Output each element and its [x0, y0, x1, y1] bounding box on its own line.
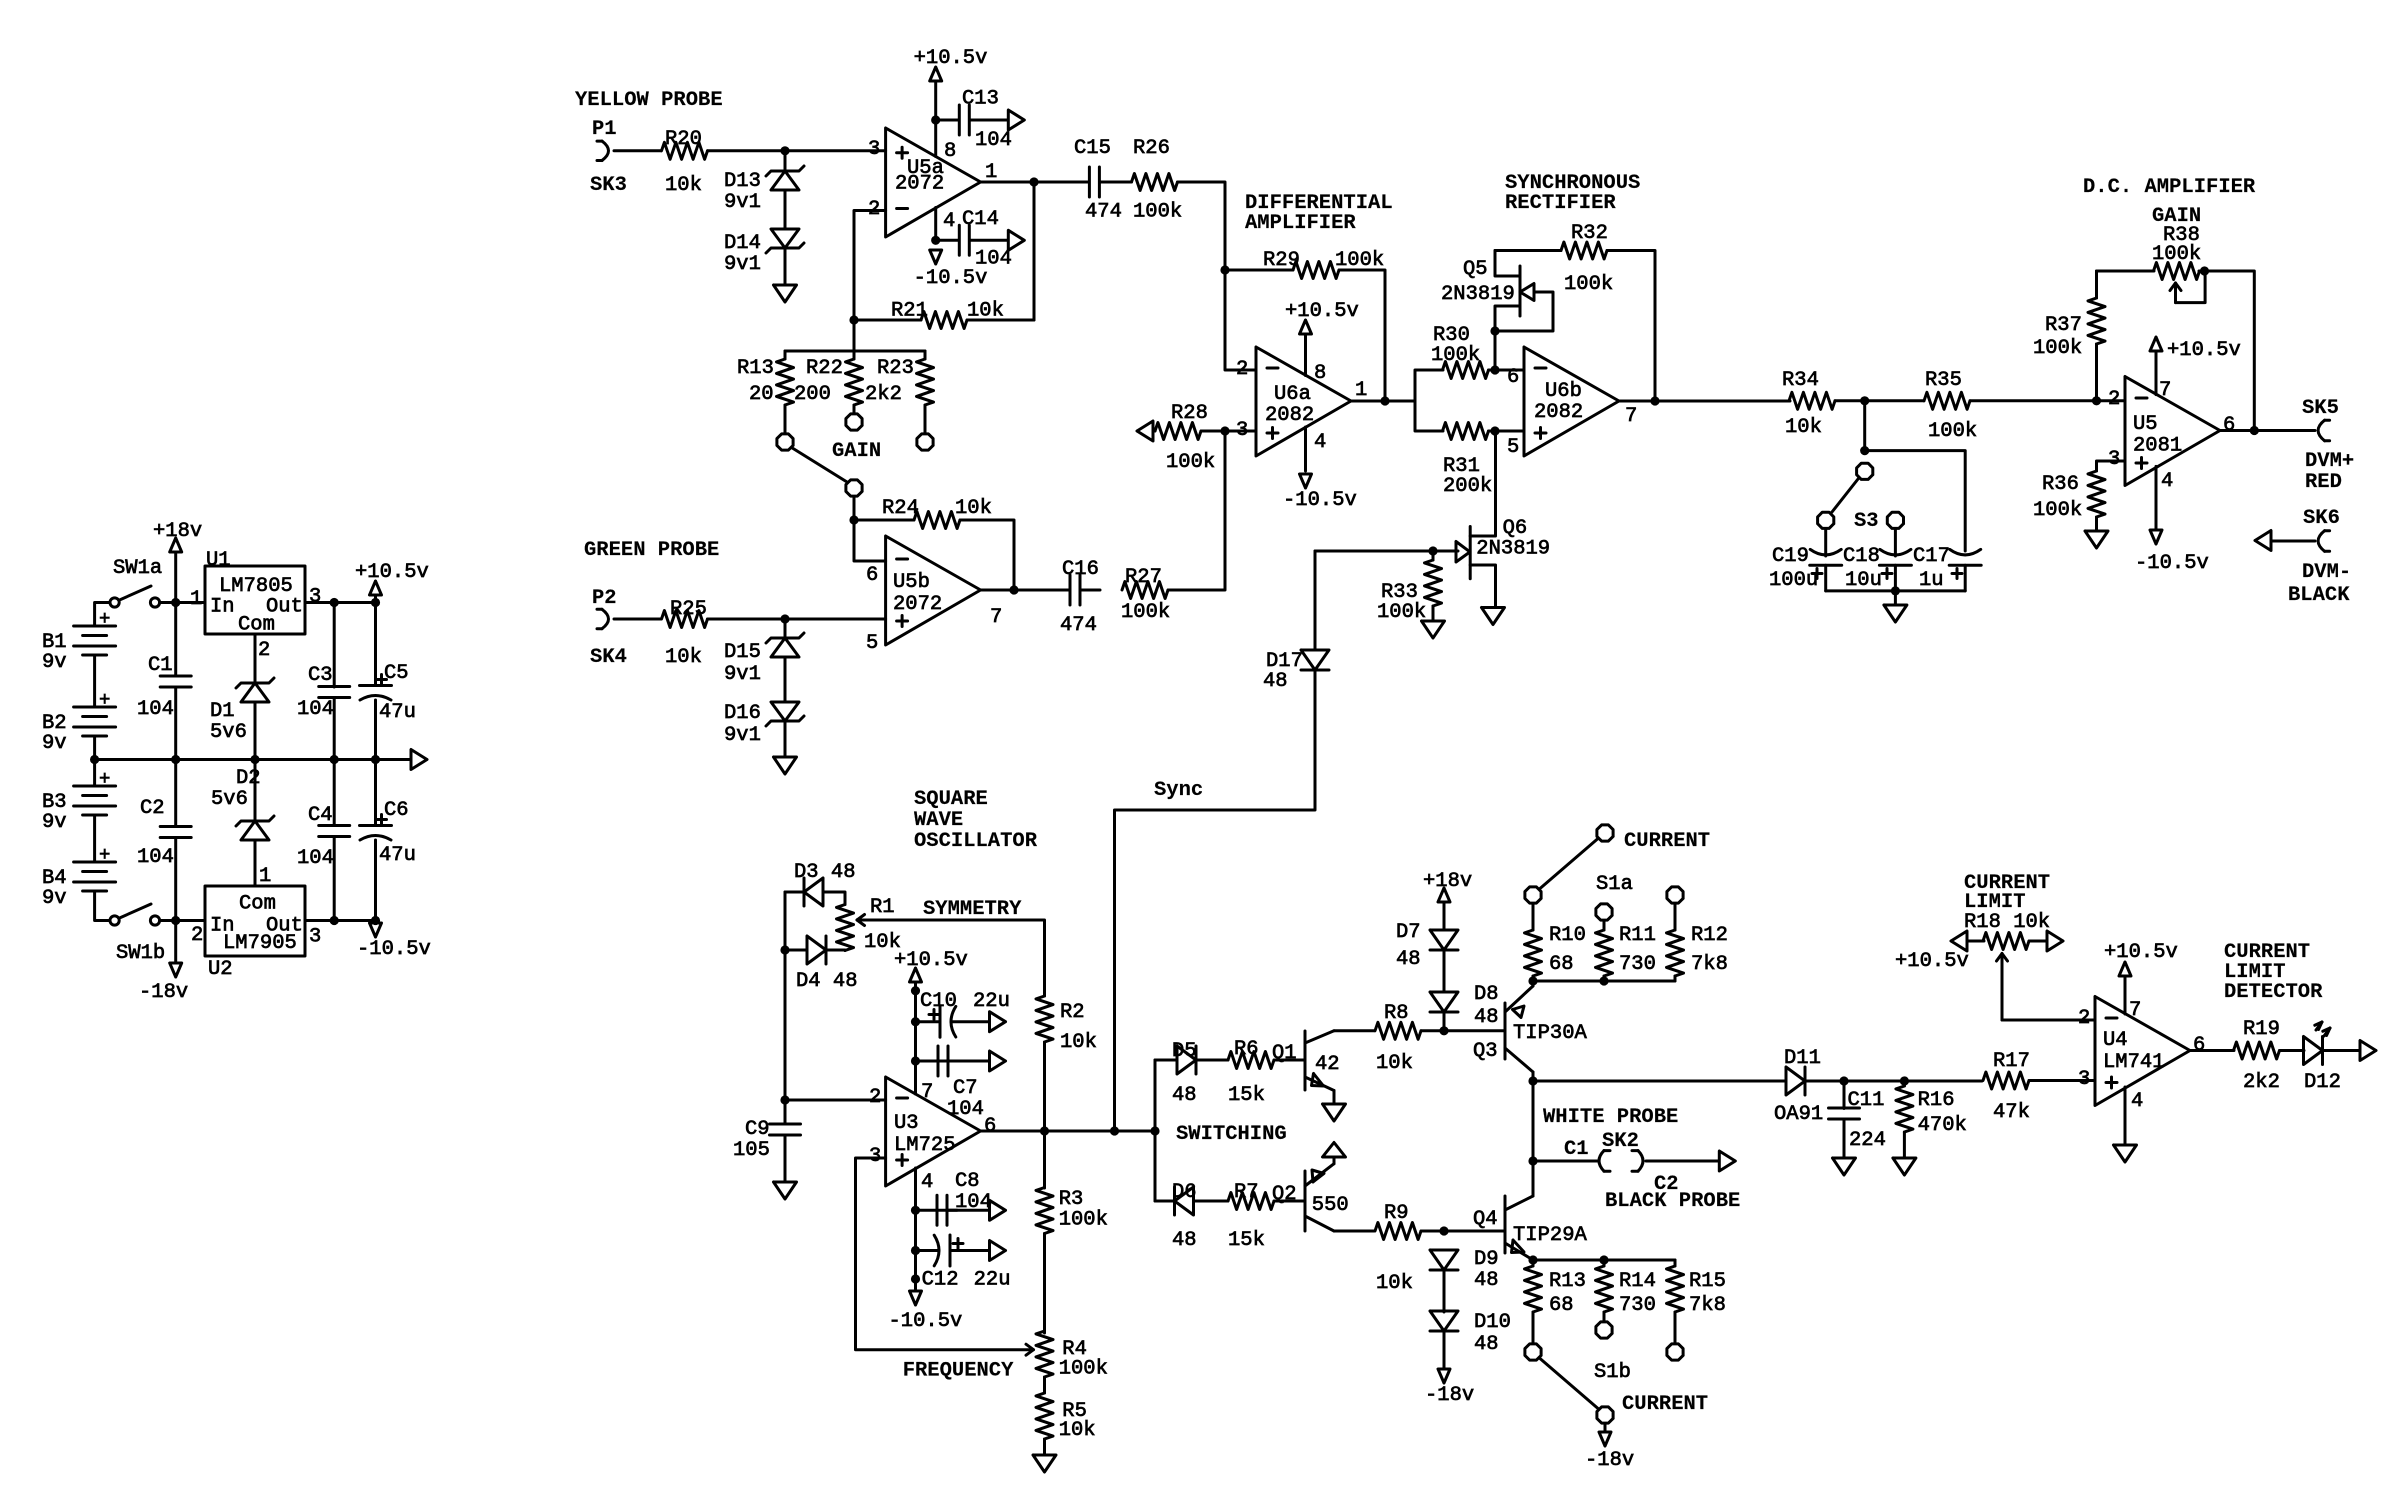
common arrow C7 — [990, 1051, 1006, 1071]
svg-text:3: 3 — [309, 586, 321, 609]
svg-text:D7: D7 — [1396, 921, 1421, 944]
svg-text:+10.5v: +10.5v — [894, 949, 968, 972]
label Q3 — [1473, 1040, 1498, 1063]
value R13b 68 — [1549, 1294, 1574, 1317]
capacitor C8 — [937, 1195, 947, 1225]
wire C6 bottom — [374, 840, 377, 921]
battery B2 — [74, 707, 116, 736]
wire 0v rail — [95, 758, 410, 761]
wire R5 bottom lead — [1043, 1439, 1046, 1455]
resistor R32 — [1561, 242, 1607, 259]
label C18 — [1843, 545, 1880, 568]
terminal circle R22 — [846, 414, 862, 430]
electrolytic C17 — [1949, 549, 1981, 565]
resistor R3 — [1036, 1188, 1053, 1234]
wire U6a pin8 stem — [1304, 334, 1307, 376]
text U2 Com — [239, 893, 276, 916]
value C14 104 — [975, 248, 1012, 271]
svg-text:10k: 10k — [665, 646, 702, 669]
svg-text:7k8: 7k8 — [1691, 953, 1728, 976]
svg-text:10u: 10u — [1845, 569, 1882, 592]
label D13 — [724, 170, 761, 193]
wire R29 right lead — [1339, 270, 1385, 401]
wire C17 bottom — [1964, 565, 1967, 591]
label R3 — [1059, 1188, 1084, 1211]
wire C10 lead left — [916, 1020, 941, 1023]
wire R36 top lead — [2097, 461, 2126, 471]
label S1a — [1596, 873, 1633, 896]
svg-text:D8: D8 — [1474, 983, 1499, 1006]
wire R16 bottom lead — [1903, 1132, 1906, 1158]
wire U4 pin7 stem — [2124, 976, 2127, 1014]
label -18v — [139, 981, 188, 1004]
svg-text:OSCILLATOR: OSCILLATOR — [914, 830, 1038, 853]
value C3 104 — [297, 698, 334, 721]
svg-text:550: 550 — [1312, 1194, 1349, 1217]
wire C2 bottom lead — [174, 838, 177, 921]
label GREEN PROBE — [584, 539, 719, 562]
junction C3 top — [330, 598, 339, 607]
diode D10 48 — [1430, 1311, 1458, 1331]
wire C19 bottom — [1824, 565, 1827, 591]
label WHITE PROBE — [1543, 1106, 1678, 1129]
label R2 — [1060, 1001, 1085, 1024]
capacitor C3 — [319, 687, 350, 698]
minus input mark U4 — [2106, 1017, 2117, 1020]
label +10.5v R18 — [1895, 950, 1969, 973]
svg-text:6: 6 — [1507, 366, 1519, 389]
wire C9 top lead — [784, 1100, 787, 1124]
resistor R1 pot — [837, 905, 854, 951]
svg-text:2N3819: 2N3819 — [1476, 538, 1550, 561]
resistor R27 — [1122, 582, 1168, 599]
plus input mark U6a — [1267, 428, 1278, 439]
svg-text:100k: 100k — [1564, 273, 1613, 296]
electrolytic C6 — [360, 826, 392, 841]
svg-text:5: 5 — [866, 632, 878, 655]
wire Q6 source lead — [1470, 565, 1495, 607]
wire R38 right lead — [2199, 271, 2254, 431]
wire R3 to R4 — [1043, 1234, 1046, 1334]
label C14 — [962, 208, 999, 231]
svg-text:D13: D13 — [724, 170, 761, 193]
connector P1/SK3 — [597, 141, 609, 160]
wire C14 lead — [936, 239, 959, 242]
wire C5 bottom — [374, 700, 377, 760]
label SW1a — [113, 557, 162, 580]
wire D8 to base node — [1443, 1012, 1446, 1031]
label C2 wire — [1654, 1173, 1679, 1196]
switch SW1b contact 1 — [110, 916, 119, 925]
svg-text:3: 3 — [868, 138, 880, 161]
wire +18v to D7 — [1443, 902, 1446, 930]
ground below R5 — [1033, 1455, 1056, 1472]
pin 2 U4 — [2078, 1007, 2090, 1030]
junction C12 node — [911, 1246, 920, 1255]
connector P2/SK4 — [597, 609, 609, 628]
regulator U1 LM7805 box — [205, 566, 305, 634]
wire C7 lead — [916, 1060, 958, 1063]
svg-text:105: 105 — [733, 1139, 770, 1162]
value R6 15k — [1228, 1084, 1265, 1107]
wire U5 output — [2220, 429, 2315, 432]
label R10 — [1549, 924, 1586, 947]
value B3 9v — [42, 811, 67, 834]
plus mark B2 — [99, 689, 110, 711]
svg-text:R36: R36 — [2042, 473, 2079, 496]
wire R30 to pin6 node — [1489, 369, 1525, 372]
junction D8 node — [1439, 1026, 1448, 1035]
power arrow -10.5v U5a — [930, 250, 942, 264]
wire split to R31 — [1415, 401, 1443, 431]
svg-text:D10: D10 — [1474, 1311, 1511, 1334]
wire U3 pin7 stem — [914, 982, 917, 1094]
switch SW1a contact 1 — [110, 598, 119, 607]
junction C7 node — [911, 1056, 920, 1065]
svg-text:R23: R23 — [877, 357, 914, 380]
op-amp U5a — [886, 128, 981, 237]
junction battery mid / 0v rail — [90, 755, 99, 764]
arrow DVM- return — [2255, 531, 2271, 551]
wire C11 top lead — [1843, 1081, 1846, 1109]
label R26 — [1133, 137, 1170, 160]
resistor R8 — [1375, 1022, 1421, 1039]
power arrow -10.5v U5 — [2150, 530, 2162, 544]
value R24 10k — [955, 497, 992, 520]
value Q1 42 — [1315, 1053, 1340, 1076]
wire R7 to Q2 base — [1274, 1200, 1305, 1203]
label Q6 — [1503, 517, 1528, 540]
label P2 — [592, 587, 617, 610]
resistor R23 (gain) — [917, 359, 934, 405]
svg-text:P1: P1 — [592, 118, 617, 141]
wire C1 bottom to rail — [174, 688, 177, 760]
wire D5/D6 vertical — [1154, 1060, 1157, 1201]
svg-text:1u: 1u — [1919, 569, 1944, 592]
value R11 730 — [1619, 953, 1656, 976]
svg-text:2: 2 — [191, 924, 203, 947]
wire U4 pin4 stem — [2124, 1087, 2127, 1145]
power arrow -18v S1b — [1599, 1432, 1611, 1446]
svg-text:47k: 47k — [1993, 1101, 2030, 1124]
value D16 9v1 — [724, 724, 761, 747]
junction switching node — [1150, 1126, 1159, 1135]
capacitor C1 — [160, 676, 191, 687]
wiper arrow R1 — [857, 915, 865, 926]
label U5 — [2133, 413, 2158, 436]
value C9 105 — [733, 1139, 770, 1162]
svg-text:DVM+: DVM+ — [2305, 450, 2354, 473]
plus C19 — [1812, 569, 1822, 579]
label C8 — [955, 1170, 980, 1193]
label U2 — [208, 958, 233, 981]
label B2 — [42, 712, 67, 735]
label U1 — [206, 549, 231, 572]
junction C5/C6 on 0v rail — [371, 755, 380, 764]
svg-text:+10.5v: +10.5v — [355, 561, 429, 584]
pin 5 U6b — [1507, 436, 1519, 459]
wire R26 to U6a pin2 — [1178, 182, 1257, 370]
terminal circle R13b — [1525, 1344, 1541, 1360]
svg-text:R12: R12 — [1691, 924, 1728, 947]
svg-text:5: 5 — [1507, 436, 1519, 459]
wire R12 bottom — [1674, 976, 1677, 981]
svg-text:8: 8 — [1314, 362, 1326, 385]
ground below R16 — [1893, 1158, 1916, 1175]
LED arrows D12 — [2315, 1022, 2330, 1036]
switch SW1b arm — [120, 904, 152, 918]
wire C17 branch — [1865, 451, 1966, 551]
wire D11 to R17 — [1805, 1080, 1982, 1083]
svg-text:C16: C16 — [1062, 558, 1099, 581]
svg-text:LM725: LM725 — [894, 1134, 956, 1157]
svg-text:D4 48: D4 48 — [796, 970, 858, 993]
label D2 — [236, 767, 261, 790]
svg-text:C14: C14 — [962, 208, 999, 231]
value R34 10k — [1785, 416, 1822, 439]
svg-text:WHITE PROBE: WHITE PROBE — [1543, 1106, 1678, 1129]
wire U5 pin7 stem — [2155, 351, 2158, 395]
svg-text:2072: 2072 — [895, 173, 944, 196]
power arrow -10.5v supply — [370, 923, 382, 937]
label R17 — [1993, 1050, 2030, 1073]
value Q5 2N3819 — [1441, 283, 1515, 306]
label R28 — [1171, 402, 1208, 425]
junction Q5 source/gate — [1490, 326, 1499, 335]
label SWITCHING — [1176, 1123, 1287, 1146]
label C11 — [1848, 1089, 1885, 1112]
wire C15 to R26 — [1100, 181, 1132, 184]
junction Q4 emitter node — [1528, 1255, 1537, 1264]
plus input mark U5 — [2136, 458, 2147, 469]
label U5a — [907, 157, 944, 180]
value R19 2k2 — [2243, 1071, 2280, 1094]
wire D6 left lead — [1155, 1200, 1175, 1203]
pin 8 U5a — [944, 140, 956, 163]
label R14 — [1619, 1270, 1656, 1293]
svg-text:SK3: SK3 — [590, 174, 627, 197]
label R11 — [1619, 924, 1656, 947]
junction cap bank ground — [1891, 586, 1900, 595]
svg-text:9v1: 9v1 — [724, 663, 761, 686]
ground below D16 — [774, 757, 797, 774]
wiper arrow R18 — [1997, 954, 2008, 1021]
label R21 — [891, 300, 928, 323]
svg-text:48: 48 — [1172, 1229, 1197, 1252]
svg-text:YELLOW PROBE: YELLOW PROBE — [575, 89, 723, 112]
wire pin2 jog — [854, 211, 886, 321]
svg-text:10k: 10k — [1785, 416, 1822, 439]
resistor R19 — [2234, 1042, 2280, 1059]
wire D6 to R7 — [1194, 1200, 1229, 1203]
wire D5 to R6 — [1196, 1059, 1228, 1062]
resistor R24 — [914, 512, 960, 529]
svg-text:R1: R1 — [870, 896, 895, 919]
value B2 9v — [42, 732, 67, 755]
svg-text:U3: U3 — [894, 1112, 919, 1135]
value C2 104 — [137, 846, 174, 869]
wire C16 to R27 — [1081, 589, 1101, 592]
svg-text:R7: R7 — [1234, 1181, 1259, 1204]
label R31 — [1443, 455, 1480, 478]
wire split to R30 — [1415, 370, 1443, 401]
label R6 — [1234, 1038, 1259, 1061]
svg-text:15k: 15k — [1228, 1229, 1265, 1252]
arrow R18 left — [1951, 931, 1967, 951]
pin 6 U5b — [866, 564, 878, 587]
svg-text:C4: C4 — [308, 804, 333, 827]
diode D3 48 — [804, 878, 823, 906]
svg-text:100k: 100k — [1121, 601, 1170, 624]
label Q4 — [1473, 1208, 1498, 1231]
value R31 200k — [1443, 475, 1492, 498]
wire R11 bottom — [1603, 976, 1606, 981]
svg-text:104: 104 — [137, 846, 174, 869]
label +18v D7 — [1423, 870, 1472, 893]
junction R21 / pin2 node — [849, 315, 858, 324]
plus mark B4 — [99, 844, 110, 866]
wire R18 right lead — [2029, 940, 2047, 943]
switch S1b arm — [1540, 1359, 1598, 1409]
ground below Q1 — [1323, 1104, 1346, 1121]
svg-text:C10: C10 — [920, 990, 957, 1013]
label U3 — [894, 1112, 919, 1135]
label D16 — [724, 702, 761, 725]
wire R3 top lead — [1043, 1131, 1046, 1188]
wire U5a pin4 stem — [934, 208, 937, 241]
junction S3 branch — [1860, 446, 1869, 455]
value C18 10u — [1845, 569, 1882, 592]
wire R20 to U5a pin3 — [708, 149, 886, 152]
pin 3 U5 — [2108, 448, 2120, 471]
resistor R9 — [1375, 1223, 1421, 1240]
label C7 — [953, 1077, 978, 1100]
resistor R22 (gain) — [846, 359, 863, 405]
common arrow C14 — [1008, 230, 1024, 250]
resistor R17 — [1983, 1072, 2029, 1089]
resistor R7 — [1228, 1193, 1274, 1210]
power arrow -18v D10 — [1438, 1369, 1450, 1383]
value C10 22u — [973, 990, 1010, 1013]
resistor R20 — [662, 142, 708, 159]
common arrow 0v rail — [411, 750, 427, 770]
junction C11 node — [1839, 1076, 1848, 1085]
svg-text:C19: C19 — [1772, 545, 1809, 568]
junction C6 bottom — [371, 916, 380, 925]
wire Q6 drain lead — [1470, 431, 1495, 536]
pin 1 U6a — [1355, 379, 1367, 402]
svg-text:R10: R10 — [1549, 924, 1586, 947]
svg-text:D1: D1 — [210, 700, 235, 723]
wire B4 to SW1b — [95, 891, 110, 921]
label R25 — [670, 598, 707, 621]
transistor Q1 base bar — [1304, 1031, 1307, 1090]
wire D13 to D14 — [784, 190, 787, 229]
svg-text:7: 7 — [1625, 405, 1637, 428]
label SK4 — [590, 646, 627, 669]
label CURRENT limit — [1964, 872, 2050, 895]
minus input mark U5 — [2136, 397, 2147, 400]
svg-text:1: 1 — [1355, 379, 1367, 402]
junction C1/C2 on 0v rail — [171, 755, 180, 764]
terminal circle R13 — [777, 434, 793, 450]
svg-text:2N3819: 2N3819 — [1441, 283, 1515, 306]
wire -18v stem — [174, 921, 177, 964]
wire C13 lead — [936, 119, 959, 122]
terminal circle R15 — [1667, 1344, 1683, 1360]
pin 6 U4 — [2193, 1034, 2205, 1057]
common arrow R28 — [1137, 421, 1153, 441]
wire +18v arrow stem — [174, 552, 177, 603]
value Q6 2N3819 — [1476, 538, 1550, 561]
svg-text:U5b: U5b — [893, 571, 930, 594]
plus C6 — [377, 815, 387, 825]
label R27 — [1125, 566, 1162, 589]
pin 6 U6b — [1507, 366, 1519, 389]
junction -18v node — [171, 916, 180, 925]
svg-text:68: 68 — [1549, 1294, 1574, 1317]
wire Q1 collector to R8 — [1334, 1029, 1374, 1032]
svg-text:SW1a: SW1a — [113, 557, 162, 580]
wire R19 to D12 — [2280, 1049, 2305, 1052]
label D14 — [724, 232, 761, 255]
capacitor C13 — [959, 105, 969, 135]
wire Q3 emitter up — [1532, 981, 1535, 986]
wire U6a pin4 stem — [1304, 427, 1307, 471]
label P1 — [592, 118, 617, 141]
svg-text:D11: D11 — [1784, 1047, 1821, 1070]
wire C18 bottom — [1894, 565, 1897, 591]
label WAVE — [914, 809, 963, 832]
label -10.5v U5 — [2135, 552, 2209, 575]
wire R9 to Q4 base — [1421, 1230, 1505, 1233]
svg-text:Q3: Q3 — [1473, 1040, 1498, 1063]
pin 5 U5b — [866, 632, 878, 655]
transistor Q2 emitter — [1305, 1164, 1334, 1186]
power arrow -18v — [170, 963, 182, 977]
svg-text:Q1: Q1 — [1272, 1042, 1297, 1065]
svg-text:9v: 9v — [42, 651, 67, 674]
svg-text:R11: R11 — [1619, 924, 1656, 947]
label C9 — [745, 1118, 770, 1141]
label R23 — [877, 357, 914, 380]
svg-text:9v: 9v — [42, 887, 67, 910]
label YELLOW PROBE — [575, 89, 723, 112]
wire C8 to common — [947, 1209, 989, 1212]
svg-text:D14: D14 — [724, 232, 761, 255]
svg-text:2082: 2082 — [1265, 404, 1314, 427]
value R3 100k — [1059, 1209, 1108, 1232]
wire R10-R12 bus — [1533, 980, 1675, 983]
wire C4 bottom — [333, 837, 336, 921]
svg-text:SYMMETRY: SYMMETRY — [923, 898, 1022, 921]
resistor R14 — [1596, 1266, 1613, 1312]
wire C12 lead left — [916, 1249, 940, 1252]
label R18 10k — [1964, 911, 2050, 934]
value C19 100u — [1769, 569, 1818, 592]
junction C3/C4 on 0v rail — [330, 755, 339, 764]
wire D16 to ground — [784, 721, 787, 757]
junction R30 / U6b pin6 — [1490, 365, 1499, 374]
transistor Q3 collector — [1505, 1048, 1533, 1072]
resistor R29 — [1293, 262, 1339, 279]
resistor R16 — [1896, 1086, 1913, 1132]
battery B4 — [74, 862, 116, 891]
wire U6b output — [1620, 400, 1791, 403]
svg-text:R24: R24 — [882, 497, 919, 520]
svg-text:D15: D15 — [724, 641, 761, 664]
svg-text:470k: 470k — [1918, 1114, 1967, 1137]
